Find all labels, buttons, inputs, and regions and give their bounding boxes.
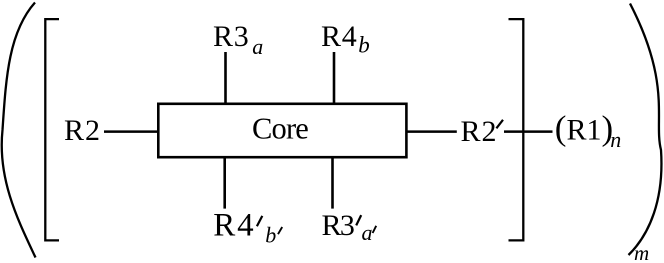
wire R4 to core top	[333, 52, 336, 104]
left square bracket	[45, 19, 59, 240]
left outer parenthesis	[2, 3, 36, 258]
svg-text:R4: R4	[213, 207, 255, 243]
right outer parenthesis	[629, 4, 662, 256]
svg-text:n: n	[610, 127, 621, 152]
svg-text:Core: Core	[252, 112, 308, 146]
svg-text:a: a	[362, 220, 373, 245]
svg-text:R4: R4	[321, 20, 358, 53]
wire core to R2'	[406, 130, 456, 133]
wire core bottom to R3'	[331, 157, 334, 209]
right square bracket	[509, 19, 524, 240]
svg-text:(R1): (R1)	[555, 109, 613, 148]
svg-text:b: b	[265, 223, 276, 248]
svg-text:m: m	[634, 241, 649, 263]
prime of R4'	[257, 216, 262, 226]
svg-text:b: b	[358, 33, 370, 58]
prime of R2'	[496, 120, 503, 129]
small prime of subscript a'	[373, 226, 377, 233]
svg-text:R3: R3	[322, 209, 354, 242]
wire R3 to core top	[224, 52, 227, 104]
core box	[158, 104, 406, 157]
small prime of subscript b'	[278, 227, 282, 234]
svg-text:R3: R3	[213, 20, 250, 53]
wire R2' through bracket to R1	[504, 130, 553, 133]
wire core bottom to R4'	[223, 157, 226, 209]
svg-text:R2: R2	[64, 114, 101, 147]
svg-text:R2: R2	[461, 115, 498, 148]
prime of R3'	[356, 215, 361, 225]
svg-text:a: a	[252, 34, 263, 59]
wire R2 to core	[104, 130, 159, 133]
